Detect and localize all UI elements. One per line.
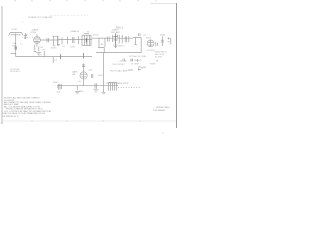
labels below IF strip xyxy=(62,46,75,48)
capacitor C12 crossing xyxy=(95,83,97,89)
long B+ drop wire xyxy=(103,53,105,86)
label output trans xyxy=(106,82,129,85)
wire antenna stem xyxy=(15,34,17,57)
output tube V4 xyxy=(147,40,154,47)
capacitor C3a xyxy=(57,37,59,43)
audio tube V3 xyxy=(80,72,87,79)
svg-text:AVC: AVC xyxy=(38,53,43,56)
IF transformer T2 xyxy=(82,34,91,46)
svg-text:FIG 100-B 2: FIG 100-B 2 xyxy=(154,110,167,112)
ground converter xyxy=(36,53,41,54)
output transformer T4 xyxy=(108,82,117,90)
filter cap row labels xyxy=(110,61,128,73)
svg-text:OR MINUS 20 %: OR MINUS 20 % xyxy=(2,116,19,118)
volume control R9 xyxy=(57,84,62,90)
grid cap above V3 xyxy=(82,64,85,72)
svg-text:SOCKETS: SOCKETS xyxy=(10,71,21,73)
detector tube V2 xyxy=(113,33,118,48)
resistor R4 xyxy=(118,35,120,43)
lamp mark xyxy=(138,68,141,70)
small caps left of detector xyxy=(108,37,110,42)
rectifier squiggle xyxy=(138,66,146,68)
svg-text:1MEG: 1MEG xyxy=(118,46,124,48)
label 50C5 xyxy=(146,37,152,39)
lower bus wire xyxy=(57,85,118,87)
B+ bus wire xyxy=(96,52,141,54)
wire to detector xyxy=(92,37,133,39)
bottom edge ticks xyxy=(2,120,164,133)
label below converter xyxy=(41,47,45,49)
electrolytic C9 xyxy=(170,38,172,44)
model label xyxy=(116,26,124,29)
ground mark xyxy=(57,45,60,46)
svg-text:12BA6 IF: 12BA6 IF xyxy=(70,30,80,33)
label T2 xyxy=(87,32,90,34)
dashed gang link xyxy=(22,36,40,38)
svg-text:470K: 470K xyxy=(79,91,84,93)
svg-text:455KC: 455KC xyxy=(93,35,100,37)
resistor drop R3 xyxy=(67,37,69,44)
labels left of V3 xyxy=(72,69,104,83)
capacitor C5 xyxy=(125,36,126,42)
electrolytic C8 xyxy=(161,36,164,46)
label 12BE6 converter xyxy=(30,29,39,34)
label below output tube xyxy=(147,50,156,52)
svg-text:PILOT DIAL LAMP: PILOT DIAL LAMP xyxy=(110,69,128,72)
page bottom border xyxy=(2,120,176,122)
coupling cap C13 xyxy=(91,74,93,78)
resistor drop R2 xyxy=(61,37,63,44)
plate bracket wire xyxy=(133,38,141,53)
small marks xyxy=(78,36,80,44)
dots below C4 xyxy=(85,43,87,45)
svg-text:117V AC-DC LINE: 117V AC-DC LINE xyxy=(129,55,147,58)
capacitor C2 xyxy=(47,38,48,42)
loop antenna L1 xyxy=(9,33,24,36)
svg-text:MODEL 5A24: MODEL 5A24 xyxy=(156,106,170,109)
bottom right block xyxy=(154,106,171,112)
label 12BA6 xyxy=(70,30,80,33)
svg-text:500K: 500K xyxy=(53,82,58,84)
svg-text:FUSE: FUSE xyxy=(150,64,156,66)
svg-text:CONV: CONV xyxy=(30,32,37,34)
osc coil below V1 xyxy=(34,45,39,52)
svg-text:100K: 100K xyxy=(70,46,75,48)
faint rule xyxy=(50,15,88,17)
page top edge ticks xyxy=(15,0,156,2)
svg-text:SW ON VOL: SW ON VOL xyxy=(130,60,143,62)
resistor R6 xyxy=(128,36,130,42)
AVC resistor tick R7 xyxy=(43,51,45,57)
short line xyxy=(128,69,133,71)
svg-text:455KC: 455KC xyxy=(51,48,58,50)
svg-text:C10 C11 R12: C10 C11 R12 xyxy=(112,64,125,66)
left small note xyxy=(10,68,21,73)
wire T3 to B+ xyxy=(103,48,105,53)
junction tick xyxy=(60,54,62,59)
heater text rows right xyxy=(129,55,156,66)
capacitor C3 xyxy=(73,37,74,43)
label 12AV6 xyxy=(111,29,121,34)
resistor R5 xyxy=(121,35,123,43)
svg-text:40/40: 40/40 xyxy=(160,34,166,36)
label top right caps xyxy=(160,34,166,36)
AVC bus wire xyxy=(16,56,92,58)
page left border xyxy=(1,6,3,124)
svg-text:50C5: 50C5 xyxy=(146,37,152,39)
wire plate to IFT1 xyxy=(40,39,58,41)
plus marks xyxy=(168,37,170,41)
page top border xyxy=(150,3,176,5)
ground tick left xyxy=(11,53,16,55)
right top text block xyxy=(155,51,167,58)
svg-text:B+ 90V: B+ 90V xyxy=(155,57,162,59)
svg-text:LOOP: LOOP xyxy=(11,29,18,31)
notes text block xyxy=(2,97,52,118)
junction tick 2 xyxy=(83,53,85,58)
mark xyxy=(156,60,158,62)
svg-text:LINE VOLTAGE 117V AC READINGS: LINE VOLTAGE 117V AC READINGS PLUS xyxy=(2,112,45,115)
svg-text:47 OHM: 47 OHM xyxy=(131,64,139,66)
title text xyxy=(28,17,53,19)
wire IF line xyxy=(59,39,93,41)
dashed speaker wire xyxy=(118,87,140,89)
drop below bus xyxy=(103,86,105,92)
tuning capacitor C1 xyxy=(24,33,27,39)
IF transformer T1 xyxy=(53,36,59,46)
svg-text:OUTPUT TRANS SPKR: OUTPUT TRANS SPKR xyxy=(106,82,129,85)
cathode wire V3 xyxy=(83,79,85,86)
svg-text:12AV6: 12AV6 xyxy=(72,70,79,73)
page right border xyxy=(176,3,178,128)
capacitor C4 dark xyxy=(85,38,87,42)
marks right of output tube xyxy=(156,42,158,46)
resistor R10 drop xyxy=(76,86,78,91)
ground R10 xyxy=(75,91,80,93)
coupling cap C6 xyxy=(134,38,136,45)
label L1 xyxy=(12,42,17,47)
ground detector xyxy=(113,45,118,48)
elec cap bars row xyxy=(123,59,137,62)
resistor R8 below bus xyxy=(52,57,54,63)
svg-text:SCHEM OF 5 TUBE SET: SCHEM OF 5 TUBE SET xyxy=(28,17,53,19)
label T1 xyxy=(51,48,58,50)
faint mark upper left xyxy=(22,21,24,23)
converter tube V1 xyxy=(34,35,41,47)
ground C12 xyxy=(93,90,98,92)
plus cap C7 xyxy=(139,33,140,36)
oscillator coil blob xyxy=(15,47,17,50)
IF transformer T3 xyxy=(97,38,107,47)
label ANT xyxy=(11,29,18,31)
